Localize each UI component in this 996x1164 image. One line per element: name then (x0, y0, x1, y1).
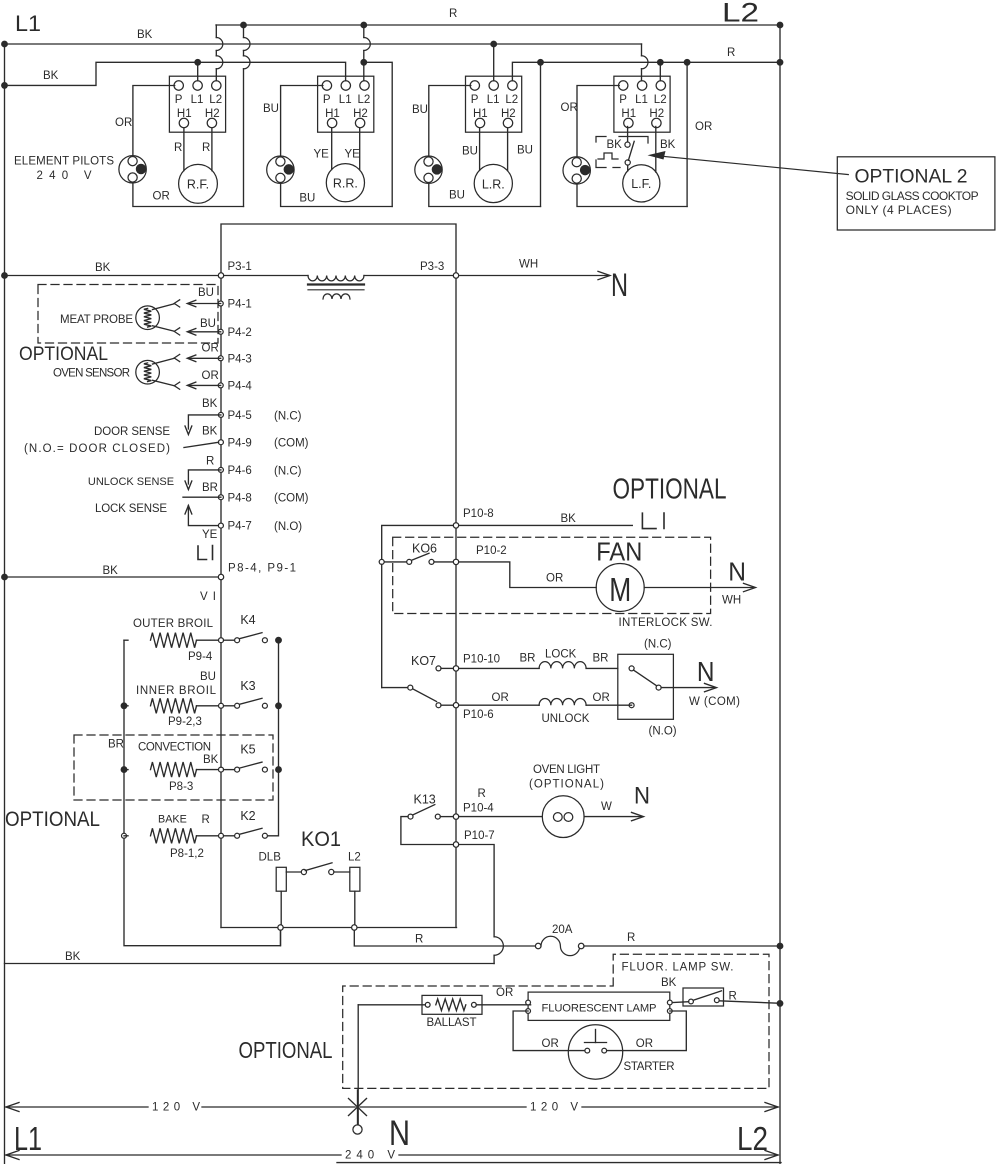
element R.F. (179, 164, 218, 203)
svg-text:(COM): (COM) (274, 438, 309, 450)
svg-text:BK: BK (137, 29, 153, 41)
wire transformer to P3-3 (364, 275, 453, 277)
breakaway chevron P4-4 (174, 382, 180, 389)
fuse DLB (276, 867, 286, 891)
node P8-3 on P8 column (219, 767, 224, 772)
svg-text:OR: OR (202, 343, 219, 355)
junction dot R line at L2 bus (777, 943, 783, 949)
pilot light elem2 (267, 156, 294, 183)
junction dot right bus row3 (276, 767, 282, 773)
svg-text:BU: BU (299, 192, 315, 204)
svg-text:M: M (609, 571, 631, 608)
svg-text:K4: K4 (240, 613, 255, 627)
svg-text:P9-2,3: P9-2,3 (168, 716, 202, 728)
wire P4-1 lead with arrow (189, 303, 221, 305)
node DLB/link (278, 925, 283, 930)
svg-text:P4-2: P4-2 (228, 327, 252, 339)
node P4-9 (218, 440, 223, 445)
ballast resistor (422, 995, 482, 1014)
node P4-3 (218, 356, 223, 361)
node P4-8 (218, 495, 223, 500)
node P8-4 P9-1 (218, 574, 223, 579)
node P4-4 (218, 383, 223, 388)
wire door sense actuator (188, 415, 221, 429)
svg-text:OPTIONAL 2: OPTIONAL 2 (855, 165, 968, 187)
svg-text:R: R (174, 142, 182, 154)
svg-text:BU: BU (517, 144, 533, 156)
wire L2 elem4 riser (659, 62, 661, 80)
wire L1 elem1 riser (197, 62, 199, 80)
wire P3 connector box top (221, 224, 456, 273)
fuse 20A (535, 943, 541, 949)
svg-text:OUTER BROIL: OUTER BROIL (133, 618, 214, 630)
wire P elem2 to pilot (281, 86, 323, 156)
wire P8 column upper (220, 580, 222, 638)
svg-text:R: R (627, 932, 635, 944)
node P9-2,3 on P8 column (219, 703, 224, 708)
svg-text:L1: L1 (15, 11, 41, 36)
wire unlock coil row (441, 704, 453, 706)
wire lamp right pin to starter (607, 1011, 686, 1051)
svg-text:BALLAST: BALLAST (427, 1017, 477, 1029)
svg-text:OPTIONAL: OPTIONAL (239, 1037, 333, 1063)
svg-text:W: W (601, 801, 612, 813)
wire lamp to switch (672, 1001, 688, 1004)
node P10-6 (453, 703, 458, 708)
svg-text:OVEN LIGHT: OVEN LIGHT (533, 764, 600, 776)
transformer core (308, 283, 364, 285)
relay coil L2 (350, 867, 360, 891)
svg-text:L2: L2 (348, 852, 361, 864)
svg-text:INTERLOCK SW.: INTERLOCK SW. (619, 617, 713, 629)
junction dot R3b/L2 elem4 (658, 60, 664, 66)
node P9-4 on P8 column (219, 638, 224, 643)
svg-text:N: N (611, 267, 628, 303)
svg-text:BR: BR (202, 482, 218, 494)
junction dot R3b/return4 (684, 60, 690, 66)
breakaway chevron P4-1 (174, 300, 180, 307)
wire L1 bus left vertical (4, 44, 6, 1164)
wire P4-4 lead with arrow (189, 384, 221, 386)
svg-text:P3-3: P3-3 (420, 261, 444, 273)
svg-text:N: N (389, 1114, 410, 1153)
svg-text:CONVECTION: CONVECTION (138, 742, 211, 754)
switch box SW4 (L.F.) (614, 76, 670, 132)
node P10-4 (453, 814, 458, 819)
breakaway chevron P4-2 (174, 328, 180, 335)
svg-text:P10-8: P10-8 (463, 508, 494, 520)
svg-text:BK: BK (607, 139, 623, 151)
heating element OUTER BROIL (124, 639, 128, 641)
wire L2coil node to fuse line (354, 930, 535, 946)
svg-text:K5: K5 (240, 743, 255, 757)
svg-text:R.R.: R.R. (333, 177, 358, 191)
svg-text:KO1: KO1 (301, 828, 341, 851)
svg-text:YE: YE (314, 149, 330, 161)
switch box SW1 (R.F.) (169, 76, 225, 132)
svg-text:L2: L2 (737, 1121, 768, 1158)
svg-text:WH: WH (722, 595, 741, 607)
door switch blade (184, 442, 219, 447)
dimension 120V left (6, 1103, 19, 1112)
junction dot R3a/L1 elem1 (195, 60, 201, 66)
svg-text:L2: L2 (358, 94, 371, 106)
svg-text:BK: BK (65, 951, 81, 963)
svg-text:R: R (202, 142, 210, 154)
dashed box convection optional (74, 735, 273, 800)
svg-text:R: R (478, 788, 486, 800)
svg-text:BK: BK (202, 398, 218, 410)
junction dot L2 elem2 branch (361, 60, 367, 66)
dimension 240V (6, 1151, 19, 1160)
node P10-7 (453, 842, 458, 847)
wire lock coil row (441, 667, 453, 669)
svg-text:P4-3: P4-3 (228, 353, 252, 365)
svg-text:OR: OR (492, 692, 509, 704)
svg-text:DLB: DLB (259, 852, 282, 864)
breakaway chevron P4-3 (174, 354, 180, 361)
svg-text:L.R.: L.R. (482, 177, 505, 191)
svg-text:R: R (206, 456, 214, 468)
heating element INNER BROIL (124, 705, 128, 707)
svg-text:LOCK: LOCK (545, 649, 577, 661)
svg-text:YE: YE (345, 149, 361, 161)
svg-text:120 V: 120 V (530, 1102, 578, 1114)
wire fan to N arrow (644, 587, 753, 589)
svg-text:BK: BK (661, 977, 677, 989)
svg-text:P10-6: P10-6 (463, 709, 494, 721)
svg-text:P: P (175, 94, 183, 106)
wire KO6 vertical link (381, 564, 383, 687)
svg-text:P4-4: P4-4 (228, 380, 253, 392)
svg-text:P: P (471, 94, 479, 106)
svg-text:OR: OR (115, 117, 132, 129)
transformer secondary (323, 294, 350, 299)
wire H2 elem4 (655, 127, 657, 173)
wire return4 riser (686, 62, 688, 206)
svg-text:P4-1: P4-1 (228, 299, 252, 311)
junction dot R1/return1 (241, 22, 247, 28)
svg-text:MEAT PROBE: MEAT PROBE (60, 314, 133, 326)
svg-text:UNLOCK SENSE: UNLOCK SENSE (88, 476, 174, 488)
leader arrow OPTIONAL 2 (663, 156, 848, 174)
node P4-1 (218, 301, 223, 306)
connector circle left bus row4 (122, 833, 127, 838)
node P4-5 (218, 412, 223, 417)
wire fan feed (459, 562, 597, 588)
junction dot R3b/L2 bus (777, 60, 783, 66)
svg-text:OR: OR (546, 573, 563, 585)
svg-text:L1: L1 (339, 94, 352, 106)
wire P10-7 branch down with hop (459, 845, 494, 937)
wire P4-2 lead with arrow (189, 331, 221, 333)
svg-text:L2: L2 (209, 94, 222, 106)
svg-text:N: N (697, 656, 715, 687)
wire DLB node to lower R line (280, 930, 282, 946)
svg-text:R: R (415, 934, 423, 946)
svg-text:BK: BK (660, 139, 676, 151)
svg-text:FAN: FAN (596, 539, 642, 567)
wire return1 riser with hops (243, 25, 245, 38)
wire L1 elem3 riser (493, 44, 495, 81)
svg-text:BK: BK (95, 262, 111, 274)
svg-text:(N.C): (N.C) (644, 639, 672, 651)
node P3-1 (218, 273, 223, 278)
svg-text:L1: L1 (191, 94, 204, 106)
element L.F. (623, 165, 660, 202)
node P4-6 (218, 467, 223, 472)
svg-text:H2: H2 (501, 108, 516, 120)
svg-text:BU: BU (263, 103, 279, 115)
relay dashed outline elem4 (596, 137, 648, 168)
svg-text:H2: H2 (649, 108, 664, 120)
relay contact elem4 (625, 142, 630, 147)
svg-text:L2: L2 (722, 0, 759, 28)
svg-text:BU: BU (198, 287, 214, 299)
element R.R. (326, 164, 364, 202)
relay contact K5 (224, 769, 235, 771)
svg-text:OVEN SENSOR: OVEN SENSOR (53, 368, 130, 380)
svg-text:P4-9: P4-9 (228, 437, 252, 449)
wire DLB bottom (280, 891, 282, 925)
wire H1 elem4 to relay contact (627, 127, 629, 143)
wire R rail top (R1) (216, 24, 780, 26)
svg-text:BR: BR (108, 739, 124, 751)
node P8-1,2 on P8 column (219, 833, 224, 838)
wire BK rail lower (R3a) jog from L1 bus (5, 62, 346, 85)
svg-text:P8-4, P9-1: P8-4, P9-1 (228, 563, 296, 575)
svg-text:BU: BU (462, 146, 478, 158)
relay contact K2 (224, 835, 235, 837)
svg-text:P10-10: P10-10 (463, 654, 500, 666)
svg-text:(N.O): (N.O) (649, 726, 677, 738)
svg-text:20A: 20A (552, 924, 573, 936)
junction dot switch at L2 bus (777, 1001, 783, 1007)
node P4-7 (218, 523, 223, 528)
wire R rail right (R3b) from L2 elem3 (512, 62, 780, 80)
fluor lamp switch (683, 988, 724, 1006)
junction dot right bus row2 (276, 703, 282, 709)
pilot light elem4 (563, 157, 590, 184)
svg-text:R: R (727, 47, 735, 59)
wire oven light to N arrow (584, 816, 641, 818)
svg-text:BAKE: BAKE (158, 813, 187, 825)
wire P elem3 to pilot (429, 86, 471, 157)
svg-text:P10-7: P10-7 (464, 830, 495, 842)
wire relay to element L.F. (627, 165, 629, 171)
svg-text:LOCK SENSE: LOCK SENSE (95, 503, 167, 515)
relay contact K3 (224, 705, 235, 707)
svg-text:L.F.: L.F. (631, 177, 651, 191)
svg-text:(COM): (COM) (274, 493, 309, 505)
node L2coil/link (352, 925, 357, 930)
svg-text:H1: H1 (325, 108, 340, 120)
svg-text:L1: L1 (487, 94, 500, 106)
node P4-2 (218, 329, 223, 334)
wire P elem4 to pilot (577, 86, 619, 157)
oven sensor symbol (136, 360, 160, 384)
junction dot BK at L1 bus (2, 273, 8, 279)
svg-text:P8-3: P8-3 (169, 781, 193, 793)
wire neutral to ballast (358, 1004, 425, 1006)
svg-text:BK: BK (203, 754, 219, 766)
node P10-2 (453, 559, 458, 564)
wire L2 bus right vertical (779, 25, 781, 1164)
svg-text:P4-5: P4-5 (228, 410, 252, 422)
svg-text:P: P (619, 94, 627, 106)
wire BK from L1 bus to P3-1 (5, 275, 219, 277)
switch box SW2 (R.R.) (318, 76, 374, 132)
svg-text:OPTIONAL: OPTIONAL (5, 808, 100, 831)
lamp pins (526, 1000, 531, 1005)
svg-text:OR: OR (153, 191, 170, 203)
svg-text:VI: VI (200, 591, 216, 603)
solenoid UNLOCK (539, 698, 586, 705)
svg-text:BU: BU (412, 104, 428, 116)
svg-text:P4-7: P4-7 (228, 521, 252, 533)
svg-text:N: N (728, 558, 746, 586)
wire H2 elem1 (211, 128, 213, 171)
wire WH neutral to N arrow (459, 275, 608, 277)
svg-text:OR: OR (561, 102, 578, 114)
wire oven light feed (459, 816, 543, 818)
svg-text:H1: H1 (177, 108, 192, 120)
wire P4-8 lead (183, 496, 221, 498)
wire H2 elem3 (507, 128, 509, 171)
wire ballast to lamp (476, 1004, 530, 1006)
fan motor M (596, 564, 644, 612)
svg-text:ONLY (4 PLACES): ONLY (4 PLACES) (846, 203, 952, 217)
svg-text:BK: BK (561, 513, 577, 525)
svg-text:K3: K3 (240, 679, 255, 693)
wire P8 column between rows (220, 643, 222, 704)
dimension crossing marks (349, 1099, 367, 1116)
transformer primary (308, 276, 364, 281)
svg-text:BR: BR (520, 653, 536, 665)
lock switch contacts (629, 666, 634, 671)
svg-text:OPTIONAL: OPTIONAL (19, 343, 108, 365)
svg-text:(OPTIONAL): (OPTIONAL) (529, 779, 604, 791)
node P10-8 (453, 523, 458, 528)
svg-text:P: P (323, 94, 331, 106)
wire K13 to P10-7 loop (401, 817, 453, 845)
neutral terminal (353, 1125, 362, 1134)
svg-text:W (COM): W (COM) (689, 696, 740, 708)
svg-text:DOOR SENSE: DOOR SENSE (94, 426, 170, 438)
wire pilot2 bottom loop (281, 183, 393, 206)
wire pilot4 bottom loop (577, 184, 687, 206)
node P10-10 (453, 666, 458, 671)
svg-text:UNLOCK: UNLOCK (542, 713, 590, 725)
wire P3-1 to transformer (224, 275, 308, 277)
svg-text:P4-6: P4-6 (228, 465, 252, 477)
svg-text:240 V: 240 V (37, 170, 92, 182)
oven light lamp (542, 796, 584, 838)
svg-text:P8-1,2: P8-1,2 (170, 848, 204, 860)
svg-text:STARTER: STARTER (624, 1061, 675, 1073)
wire L2 coil bottom (354, 891, 356, 925)
meat probe symbol (136, 306, 160, 330)
svg-text:BU: BU (200, 318, 216, 330)
svg-text:BK: BK (103, 565, 119, 577)
junction dot lower BK at L1 bus (2, 83, 8, 89)
wire unlock sense actuator (188, 470, 221, 484)
relay contact KO1 (286, 871, 301, 873)
svg-text:H2: H2 (353, 108, 368, 120)
svg-text:R: R (202, 814, 210, 826)
svg-text:240 V: 240 V (345, 1150, 395, 1162)
svg-text:H1: H1 (621, 108, 636, 120)
wire L1 elem4 riser from R2 with hop (641, 44, 643, 56)
label L1 glyph fan (642, 513, 664, 529)
svg-text:L1: L1 (635, 94, 648, 106)
dimension 120V right (360, 1106, 526, 1108)
wire lock sense actuator (185, 506, 192, 515)
dashed box meat probe optional (38, 285, 218, 344)
wire H2 elem2 (359, 128, 361, 169)
fluorescent lamp box (528, 992, 670, 1020)
svg-text:H1: H1 (473, 108, 488, 120)
junction dot R1/L2 elem2 (361, 22, 367, 28)
svg-text:L1: L1 (14, 1121, 42, 1158)
node P3-3 (453, 273, 458, 278)
svg-text:(N.O): (N.O) (274, 521, 302, 533)
svg-text:P4-8: P4-8 (228, 492, 252, 504)
wire lock common to N arrow (661, 687, 714, 689)
wire return3 riser (540, 62, 542, 206)
junction dot R3b/return3 (538, 60, 544, 66)
svg-text:BK: BK (202, 426, 218, 438)
junction dot left bus row3 (121, 767, 127, 773)
frame bottom (337, 1162, 781, 1164)
wire L2 elem2 riser with hop (363, 25, 365, 38)
pilot light elem3 (415, 156, 442, 183)
wire L2 elem1 riser with hops (215, 25, 217, 38)
starter (568, 1025, 622, 1079)
pilot light elem1 (119, 156, 146, 183)
svg-text:WH: WH (519, 259, 538, 271)
wire P4 column (220, 278, 222, 574)
svg-text:K13: K13 (414, 793, 436, 807)
svg-text:R: R (449, 8, 457, 20)
switch box SW3 (L.R.) (466, 76, 522, 132)
svg-text:FLUORESCENT LAMP: FLUORESCENT LAMP (542, 1003, 657, 1015)
wire pilot1 bottom loop (133, 183, 244, 207)
junction dot left bus row2 (121, 703, 127, 709)
svg-text:SOLID GLASS COOKTOP: SOLID GLASS COOKTOP (846, 189, 979, 203)
svg-text:FLUOR. LAMP SW.: FLUOR. LAMP SW. (622, 961, 734, 973)
svg-text:L2: L2 (505, 94, 518, 106)
svg-text:(N.O.= DOOR CLOSED): (N.O.= DOOR CLOSED) (24, 443, 170, 455)
wire neutral riser to ballast (357, 1005, 359, 1125)
svg-text:KO6: KO6 (412, 542, 437, 556)
svg-text:120 V: 120 V (152, 1102, 200, 1114)
heating element BAKE (124, 835, 128, 837)
dashed box interlock switch (393, 537, 711, 613)
svg-text:P10-4: P10-4 (463, 803, 494, 815)
svg-text:INNER BROIL: INNER BROIL (136, 685, 217, 697)
wire pilot3 bottom loop (429, 183, 541, 206)
wire switch to L2 bus (719, 1001, 777, 1003)
lock switch box (618, 654, 674, 719)
wire fuse to L2 bus (584, 945, 780, 947)
svg-text:ELEMENT PILOTS: ELEMENT PILOTS (14, 156, 114, 168)
junction dot R2 at L1 bus (2, 41, 8, 47)
svg-text:H2: H2 (205, 108, 220, 120)
junction dot R2/L1 elem3 (491, 41, 497, 47)
svg-text:(N.C): (N.C) (274, 465, 302, 477)
svg-text:R.F.: R.F. (187, 178, 209, 192)
